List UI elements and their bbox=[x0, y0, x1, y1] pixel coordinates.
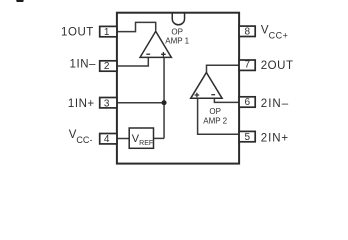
wire pin1 to op-amp1 output bbox=[117, 22, 156, 31]
svg-text:2OUT: 2OUT bbox=[261, 60, 294, 72]
wire pin3 to node A bbox=[117, 102, 164, 104]
wire pin2 to op-amp1 inverting input bbox=[117, 57, 148, 66]
junction dot node A bbox=[162, 100, 167, 105]
pin 4 box bbox=[100, 134, 117, 144]
pin 7 box bbox=[239, 60, 255, 70]
wire op-amp2 noninverting input to pin5 bbox=[198, 98, 240, 134]
op-amp U1A triangle bbox=[140, 31, 171, 57]
svg-text:4: 4 bbox=[104, 134, 110, 145]
svg-text:1OUT: 1OUT bbox=[61, 26, 94, 38]
package notch (pin-1 index) bbox=[172, 13, 184, 24]
wire Vref output to node A vertical bbox=[154, 137, 165, 139]
svg-text:1: 1 bbox=[104, 27, 110, 38]
svg-text:AMP 1: AMP 1 bbox=[165, 37, 189, 46]
svg-text:2IN–: 2IN– bbox=[261, 98, 289, 110]
wire op-amp2 output to pin7 bbox=[207, 65, 240, 72]
pin 1 box bbox=[100, 26, 117, 36]
pin 3 box bbox=[100, 98, 117, 108]
wire op-amp1 noninverting input vertical through node A bbox=[163, 57, 165, 138]
wire op-amp2 inverting input to pin6 bbox=[214, 98, 239, 102]
svg-text:1IN+: 1IN+ bbox=[68, 98, 95, 110]
svg-text:2: 2 bbox=[104, 61, 110, 72]
pin 2 box bbox=[100, 61, 117, 71]
svg-text:3: 3 bbox=[104, 98, 110, 109]
op-amp1 minus symbol bbox=[146, 53, 150, 55]
op-amp1 plus symbol bbox=[161, 52, 166, 57]
Vref reference box bbox=[129, 128, 153, 148]
op-amp U1B triangle bbox=[191, 73, 222, 99]
pin 6 box bbox=[239, 97, 255, 107]
wire pin4 to Vref box bbox=[117, 138, 129, 140]
svg-text:OP: OP bbox=[209, 107, 221, 116]
svg-text:5: 5 bbox=[245, 132, 251, 143]
svg-text:8: 8 bbox=[245, 27, 251, 38]
stray cropped text mark top-left bbox=[16, 0, 23, 2]
pin 8 box bbox=[239, 26, 255, 36]
IC body U1 (DIP-8 package outline) bbox=[117, 13, 239, 164]
svg-text:1IN–: 1IN– bbox=[70, 59, 97, 71]
svg-text:OP: OP bbox=[171, 27, 183, 36]
op-amp2 minus symbol bbox=[211, 94, 215, 96]
svg-text:6: 6 bbox=[245, 97, 251, 108]
svg-text:2IN+: 2IN+ bbox=[261, 133, 289, 145]
svg-text:AMP 2: AMP 2 bbox=[203, 117, 227, 126]
op-amp2 plus symbol bbox=[195, 93, 200, 98]
svg-text:7: 7 bbox=[245, 60, 251, 71]
pin 5 box bbox=[239, 131, 255, 141]
